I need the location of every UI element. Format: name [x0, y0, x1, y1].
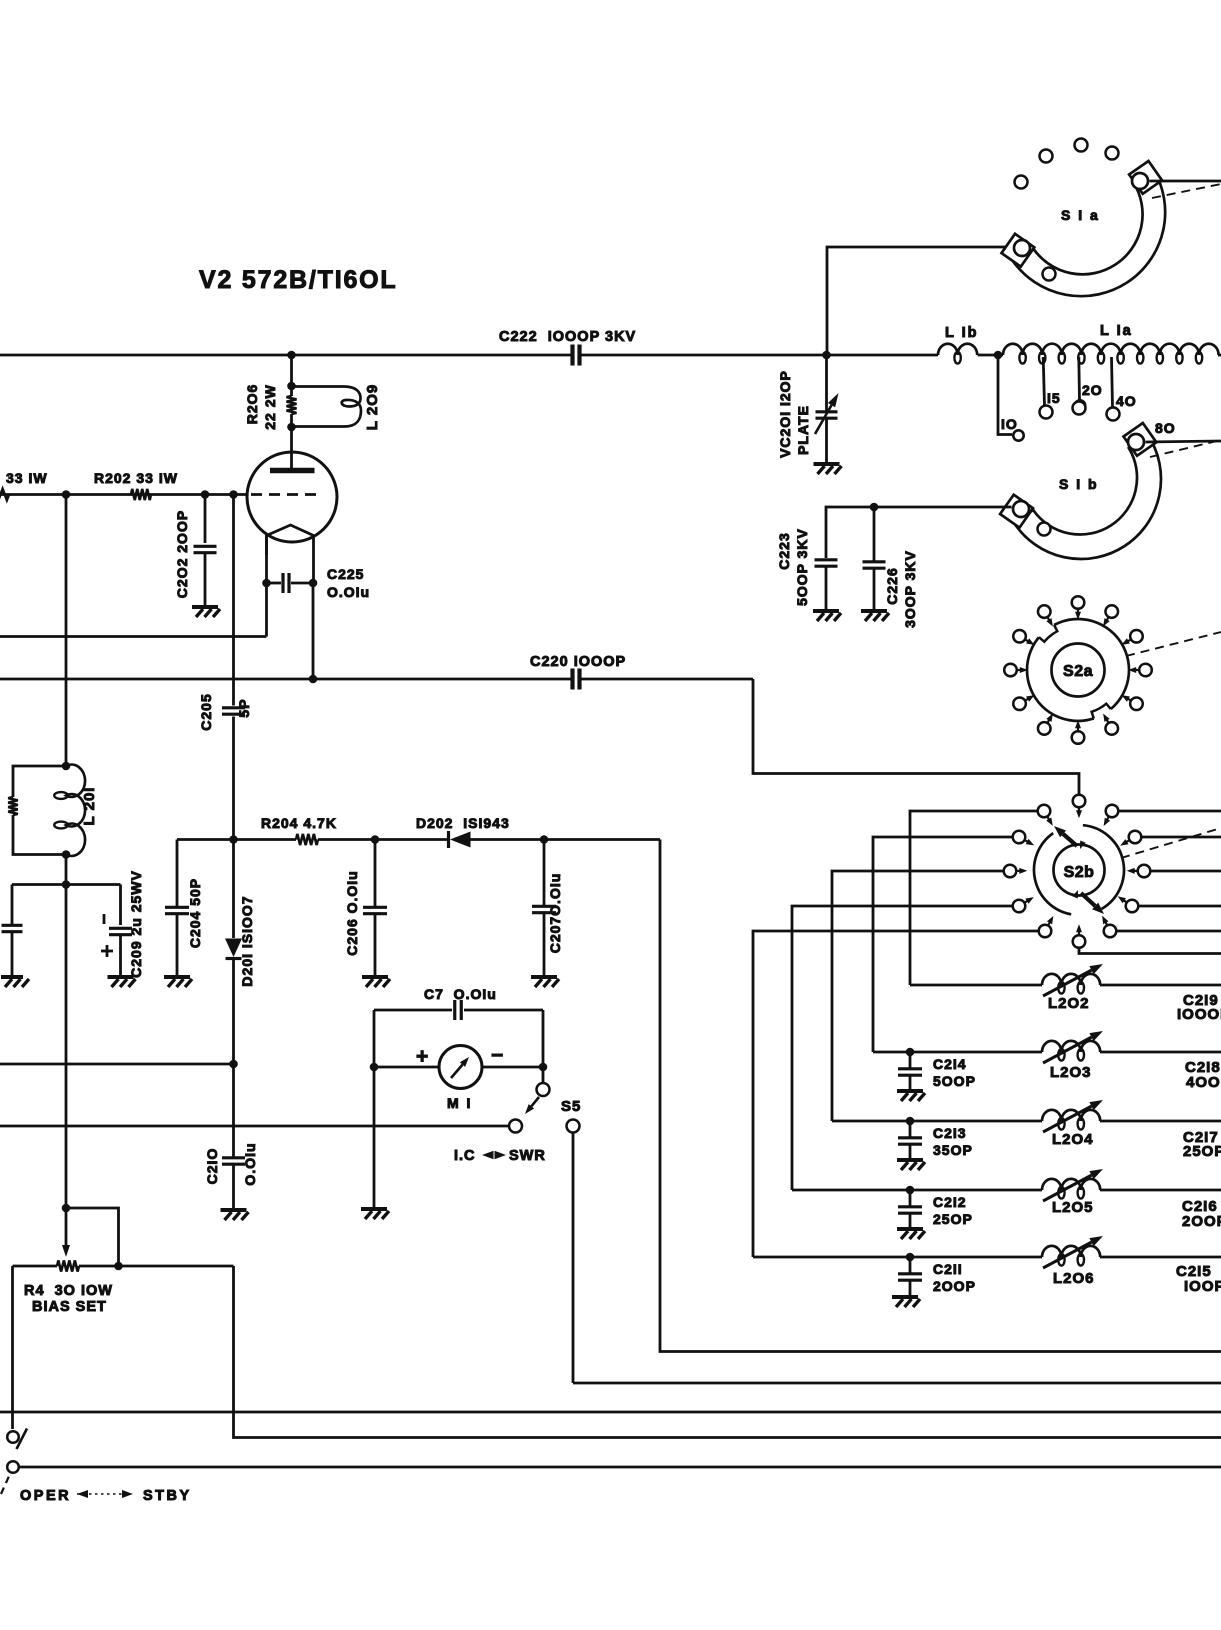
capacitor C206 0.01u — [374, 840, 377, 907]
wire plate line (HV plate bus) — [0, 354, 571, 357]
svg-text:I5: I5 — [1047, 390, 1061, 406]
rotary switch S2a — [1027, 619, 1129, 721]
svg-text:5OOP 3KV: 5OOP 3KV — [794, 528, 810, 606]
dashed rotor linkage S1b — [1150, 440, 1221, 457]
node C209 tee — [62, 880, 71, 889]
svg-text:C223: C223 — [776, 532, 792, 569]
wire S1a right terminal — [1150, 180, 1221, 183]
svg-text:M I: M I — [447, 1095, 472, 1111]
inductor L209 (parasitic choke) — [292, 387, 362, 427]
capacitor C204 50P — [176, 840, 179, 907]
wire S2b contact feed (to L205) — [792, 906, 1012, 1190]
svg-text:L2O2: L2O2 — [1048, 995, 1090, 1012]
wire L203 line — [873, 1051, 1042, 1054]
capacitor C223 500P 3KV — [815, 560, 838, 566]
svg-text:8O: 8O — [1155, 420, 1176, 436]
inductor L204 (variable) — [1042, 1110, 1100, 1121]
node C212 — [906, 1186, 915, 1195]
wire C209 tee line — [12, 883, 121, 886]
wire L202 line — [910, 984, 1042, 987]
svg-text:5P: 5P — [236, 698, 252, 717]
node C211 — [906, 1253, 915, 1262]
svg-text:L Ia: L Ia — [1100, 323, 1133, 339]
capacitor C222 1000P 3KV (inline) — [573, 345, 580, 366]
svg-text:L2O4: L2O4 — [1052, 1131, 1094, 1148]
svg-text:L 20I: L 20I — [81, 787, 98, 826]
wire R4 left down to OPER switch — [11, 1266, 14, 1429]
node R204-C206 junction — [371, 835, 380, 844]
svg-text:C222 IOOOP 3KV: C222 IOOOP 3KV — [499, 329, 636, 345]
ground meter loop left — [361, 1209, 389, 1219]
wire L205 line — [792, 1189, 1042, 1192]
capacitor C209 2u 25WV (electrolytic) — [119, 885, 122, 926]
wire plate lead — [290, 355, 293, 396]
wire C220 line — [0, 678, 571, 681]
svg-text:S I a: S I a — [1061, 207, 1100, 223]
node L201 bottom — [62, 850, 71, 859]
tube filament — [267, 525, 314, 536]
svg-text:C7 O.OIu: C7 O.OIu — [424, 986, 497, 1002]
S2b wiper arms — [1054, 826, 1077, 846]
svg-text:S I b: S I b — [1059, 476, 1099, 492]
rotary switch S1b (wiper arc) — [1014, 435, 1161, 559]
svg-text:C2O2 2OOP: C2O2 2OOP — [174, 510, 190, 598]
wire C225 right to C220 line — [312, 583, 315, 679]
wire tap 15 — [1043, 357, 1044, 406]
wire tap 20 — [1077, 357, 1080, 400]
svg-text:2OOP: 2OOP — [933, 1278, 976, 1294]
svg-text:25OP: 25OP — [1183, 1143, 1221, 1160]
svg-text:C205: C205 — [198, 693, 214, 730]
node meter right — [539, 1063, 548, 1072]
wire grid to C205/D201 bus — [232, 495, 235, 706]
capacitor C225 0.01u — [262, 579, 271, 588]
capacitor C220 1000P (inline) — [573, 669, 580, 690]
wire S5 line — [0, 1125, 509, 1128]
resistor parallel with L201 — [13, 766, 66, 797]
wire C7 loop top — [374, 1009, 452, 1012]
wire tap 40 — [1112, 357, 1113, 407]
tube grid (dashed) — [251, 493, 318, 496]
capacitor C202 200P — [204, 495, 207, 544]
wire meter loop right — [542, 1010, 545, 1083]
svg-text:IO: IO — [1001, 416, 1018, 432]
svg-text:C2I2: C2I2 — [933, 1194, 967, 1210]
rotary switch S1a (wiper arc) — [1013, 169, 1166, 296]
wire grid bias bus (vertical) — [65, 495, 68, 767]
wire bias bus arrow into R4 — [62, 1208, 70, 1257]
svg-text:S2a: S2a — [1063, 663, 1093, 680]
wire S5 terminal down — [572, 1133, 575, 1384]
node D202-C207 junction — [540, 835, 549, 844]
svg-text:BIAS SET: BIAS SET — [32, 1299, 107, 1315]
wire grid line — [0, 493, 247, 496]
wire bottom bus 1383 — [573, 1382, 1221, 1385]
svg-text:R2O6: R2O6 — [244, 384, 260, 425]
svg-text:25OP: 25OP — [933, 1211, 973, 1227]
svg-text:C204 50P: C204 50P — [187, 878, 203, 948]
dashed rotor linkage S2b — [1121, 828, 1221, 858]
node grid bus junction — [62, 490, 71, 499]
svg-text:IOOOP: IOOOP — [1177, 1006, 1221, 1023]
svg-text:L Ib: L Ib — [945, 325, 979, 341]
capacitor C205 5P — [222, 708, 245, 714]
switch OPER/STBY — [7, 1431, 19, 1443]
svg-text:L2O6: L2O6 — [1053, 1270, 1095, 1287]
svg-text:2OOP: 2OOP — [1182, 1213, 1221, 1230]
svg-text:35OP: 35OP — [933, 1142, 973, 1158]
svg-text:C226: C226 — [884, 567, 900, 604]
wire R4 to bottom bus 1437 — [234, 1266, 1221, 1438]
S5 terminal — [567, 1120, 580, 1133]
variable capacitor VC201 120P PLATE — [816, 412, 838, 418]
capacitor C212 250P — [909, 1190, 912, 1206]
wire bias line (R204/D202 row) — [177, 838, 296, 841]
resistor R206 22 2W — [287, 396, 297, 414]
inductor L1b — [938, 344, 977, 355]
wire C220 to S2b route — [753, 679, 1079, 794]
resistor R202 33 1W — [131, 489, 151, 500]
inductor L206 (variable) — [1042, 1246, 1100, 1257]
tube plate bar — [270, 468, 315, 474]
wire S2b bottom contact line — [1079, 948, 1221, 954]
S1b contacts — [1040, 406, 1053, 419]
node D201 bottom — [229, 1060, 238, 1069]
diode D201 1S1007 — [232, 840, 235, 939]
svg-text:S2b: S2b — [1064, 864, 1095, 881]
meter M1 — [439, 1046, 482, 1089]
capacitor C207 0.01u — [543, 840, 546, 906]
inductor L202 (variable) — [1042, 974, 1100, 985]
node plate/VC201/S1a junction — [822, 351, 831, 360]
svg-text:+: + — [416, 1045, 428, 1068]
wire S2b contact feed (to L203) — [873, 837, 1012, 1052]
inductor L1a — [1003, 344, 1219, 355]
inductor L203 (variable) — [1042, 1041, 1100, 1052]
wire S1b wiper to C223/C226 — [826, 507, 1012, 558]
node bias-D201 junction — [229, 835, 238, 844]
svg-text:L 2O9: L 2O9 — [364, 384, 381, 430]
capacitor C213 350P — [909, 1121, 912, 1137]
node C214 — [906, 1048, 915, 1057]
svg-text:PLATE: PLATE — [795, 405, 811, 455]
svg-text:S5: S5 — [561, 1098, 581, 1115]
capacitor C210 0.01u — [232, 1064, 235, 1158]
S2b contacts — [1073, 795, 1086, 814]
wire D201 bottom line — [0, 1063, 234, 1066]
svg-text:STBY: STBY — [143, 1488, 192, 1504]
svg-text:R4 3O IOW: R4 3O IOW — [24, 1283, 113, 1299]
wire tap 10 — [998, 355, 1012, 435]
svg-text:C225: C225 — [327, 566, 364, 582]
svg-text:VC2OI I2OP: VC2OI I2OP — [777, 370, 793, 458]
svg-text:3OOP 3KV: 3OOP 3KV — [902, 550, 918, 628]
wire C225 left line — [0, 635, 267, 638]
potentiometer R4 30 10W BIAS SET — [13, 1265, 58, 1268]
wire L206 line — [753, 1256, 1042, 1259]
wire S2b right contact lines — [1119, 810, 1221, 813]
svg-text:IOOP: IOOP — [1184, 1278, 1221, 1295]
node L1b-L1a junction — [994, 351, 1003, 360]
svg-text:L2O3: L2O3 — [1050, 1064, 1092, 1081]
wire bias line right corner down to bottom bus — [660, 840, 1221, 1352]
svg-text:C2II: C2II — [933, 1261, 963, 1277]
wire OPER switch bus 1467 — [19, 1466, 1221, 1469]
svg-text:D202 ISI943: D202 ISI943 — [416, 815, 510, 831]
svg-text:O.OIu: O.OIu — [242, 1142, 258, 1185]
svg-text:4O: 4O — [1116, 393, 1137, 409]
svg-text:C206 O.OIu: C206 O.OIu — [344, 870, 360, 955]
svg-text:C209 2u 25WV: C209 2u 25WV — [128, 870, 144, 978]
svg-text:C207O.OIu: C207O.OIu — [547, 873, 563, 954]
S1a contacts — [1015, 176, 1028, 189]
S2a contacts — [1072, 596, 1085, 615]
rotary switch S2b — [1083, 825, 1124, 909]
wire R4 branch — [66, 1208, 119, 1266]
capacitor (left edge) — [11, 885, 14, 926]
svg-text:2O: 2O — [1082, 382, 1103, 398]
node R4 tap — [114, 1262, 123, 1271]
node meter left — [370, 1063, 379, 1072]
wire S2b contact feed (to L206) — [753, 931, 1038, 1257]
wire S1b right terminal (80) — [1146, 441, 1221, 442]
svg-text:O.OIu: O.OIu — [327, 584, 370, 600]
capacitor C211 200P — [909, 1257, 912, 1273]
inductor L201 — [66, 765, 85, 856]
svg-text:C2IO: C2IO — [204, 1148, 220, 1185]
svg-text:C220 IOOOP: C220 IOOOP — [530, 654, 626, 670]
wire S2b contact feed (to L202) — [910, 811, 1037, 985]
node R4 branch — [62, 1204, 71, 1213]
svg-text:OPER: OPER — [20, 1488, 71, 1504]
svg-text:−: − — [491, 1044, 503, 1067]
svg-text:C2I4: C2I4 — [933, 1056, 967, 1072]
dashed rotor linkage S1a — [1152, 184, 1221, 198]
diode D202 1S1943 — [450, 832, 471, 848]
capacitor C226 300P 3KV — [873, 507, 876, 561]
dashed rotor linkage S2a — [1126, 632, 1221, 656]
svg-text:4OOP: 4OOP — [1186, 1074, 1221, 1091]
wire meter line — [374, 1066, 439, 1069]
svg-text:22 2W: 22 2W — [262, 384, 278, 429]
node L201 top — [62, 762, 71, 771]
svg-text:D20I ISIOO7: D20I ISIOO7 — [239, 895, 255, 986]
svg-text:L2O5: L2O5 — [1052, 1199, 1094, 1216]
switch S5 (meter select) — [537, 1083, 550, 1096]
wire bottom bus 1412 — [0, 1411, 1221, 1414]
wire S1a wiper to plate node — [827, 247, 1016, 355]
svg-text:V2 572B/TI6OL: V2 572B/TI6OL — [199, 266, 397, 294]
svg-text:R202 33 IW: R202 33 IW — [94, 470, 178, 486]
svg-text:SWR: SWR — [509, 1148, 546, 1164]
capacitor C7 0.01u — [455, 1000, 462, 1020]
resistor (edge, 33 1W) — [0, 489, 9, 500]
wire meter loop left — [373, 1010, 376, 1208]
svg-text:I.C: I.C — [454, 1148, 476, 1164]
resistor R204 4.7K — [296, 834, 318, 845]
svg-text:33 IW: 33 IW — [6, 470, 48, 486]
svg-text:R204 4.7K: R204 4.7K — [261, 815, 337, 831]
wire L204 line — [832, 1120, 1042, 1123]
tube V2 572B/T160L envelope — [247, 452, 337, 542]
wire S2b contact feed (to L204) — [832, 871, 1003, 1121]
capacitor C214 500P — [909, 1052, 912, 1068]
node C226 junction — [870, 503, 879, 512]
svg-text:5OOP: 5OOP — [933, 1073, 976, 1089]
svg-text:C2I3: C2I3 — [933, 1125, 967, 1141]
node C213 — [906, 1117, 915, 1126]
inductor L205 (variable) — [1042, 1179, 1100, 1190]
